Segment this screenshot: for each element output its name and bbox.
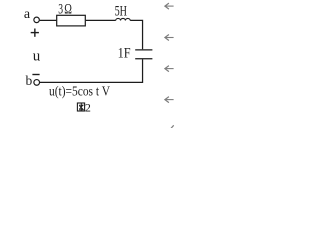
svg-text:a: a	[24, 7, 31, 22]
svg-text:u: u	[33, 49, 41, 65]
svg-text:2: 2	[85, 101, 91, 115]
svg-text:Ω: Ω	[64, 2, 72, 18]
svg-text:3: 3	[58, 2, 63, 18]
svg-text:1F: 1F	[118, 46, 131, 62]
svg-text:u(t)=5cos t V: u(t)=5cos t V	[49, 83, 110, 98]
svg-text:b: b	[26, 73, 33, 88]
svg-text:5H: 5H	[115, 4, 128, 20]
